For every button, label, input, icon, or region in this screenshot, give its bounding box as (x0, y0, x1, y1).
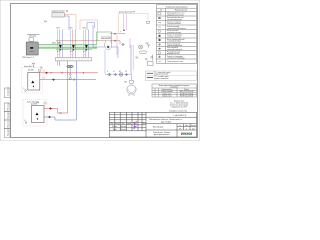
svg-text:Кабель на стороне: Кабель на стороне (167, 21, 181, 23)
svg-text:обратка отопления: обратка отопления (155, 78, 169, 80)
svg-text:Подп: Подп (133, 123, 137, 125)
svg-text:КН2: КН2 (70, 28, 73, 30)
svg-text:ГчБ.2020.ГФ: ГчБ.2020.ГФ (174, 114, 187, 117)
svg-text:Наименование: Наименование (175, 10, 187, 12)
svg-text:Насос системы: Насос системы (167, 30, 179, 32)
svg-text:датчик давления РВ: датчик давления РВ (119, 12, 136, 14)
svg-text:ПЛК Owen 1.2: ПЛК Owen 1.2 (22, 57, 34, 59)
svg-text:Подп.дата: Подп.дата (7, 112, 9, 119)
svg-text:Т1: Т1 (43, 71, 45, 73)
svg-text:Взам.инв: Взам.инв (7, 121, 9, 128)
svg-text:Разраб.: Разраб. (112, 126, 118, 128)
svg-text:Изм: Изм (110, 123, 113, 125)
svg-text:отопления контура: отопления контура (167, 32, 181, 34)
svg-text:ИНЖИ: ИНЖИ (181, 132, 192, 136)
svg-text:Кол.уч: Кол.уч (115, 123, 120, 125)
svg-text:Т2: Т2 (43, 77, 45, 79)
svg-text:вводной автомат: вводной автомат (52, 10, 65, 13)
svg-text:(15 кВт): (15 кВт) (31, 103, 37, 105)
svg-text:об.2: об.2 (70, 51, 73, 53)
svg-text:электронным приводом: электронным приводом (167, 58, 185, 60)
svg-text:ВВГнг 3х1,5 0,66 кВ: ВВГнг 3х1,5 0,66 кВ (180, 91, 194, 93)
svg-text:Кабель по которому: Кабель по которому (167, 35, 182, 37)
svg-text:Условные обозначения: Условные обозначения (166, 6, 188, 8)
svg-text:Котёл Baxi: Котёл Baxi (24, 66, 33, 68)
svg-text:КН3: КН3 (83, 28, 86, 30)
svg-text:КСПВГ 2х0,5 300 В: КСПВГ 2х0,5 300 В (180, 96, 193, 98)
svg-text:Марка: Марка (184, 89, 189, 91)
svg-text:Обозначения по баку: Обозначения по баку (167, 61, 183, 63)
svg-text:оборудованием автом.: оборудованием автом. (167, 14, 184, 16)
svg-text:свидетельство СРО: свидетельство СРО (171, 106, 187, 108)
svg-text:Клапан со следящим: Клапан со следящим (167, 56, 183, 58)
svg-text:Петров: Петров (121, 129, 126, 131)
svg-text:Лист: Лист (121, 123, 125, 125)
svg-text:К1: К1 (113, 71, 115, 73)
svg-text:КН1: КН1 (57, 28, 60, 30)
svg-text:об.3: об.3 (83, 51, 86, 53)
svg-text:подача отопления: подача отопления (155, 74, 169, 76)
svg-text:Листов: Листов (191, 125, 196, 127)
svg-text:Согласовано: Согласовано (7, 87, 9, 96)
svg-text:К2: К2 (125, 71, 127, 73)
svg-text:Подп.дата: Подп.дата (7, 129, 9, 136)
svg-text:Дата: Дата (142, 123, 146, 125)
svg-text:Н2: Н2 (119, 71, 121, 73)
svg-text:Наименование: Наименование (162, 89, 173, 91)
svg-text:дер. Райки: дер. Райки (161, 121, 171, 124)
svg-text:об.1: об.1 (57, 51, 60, 53)
svg-text:Кабель связи: Кабель связи (162, 96, 171, 98)
svg-text:Пров.: Пров. (113, 129, 118, 131)
svg-text:Жилой дом: Жилой дом (153, 126, 164, 129)
svg-text:насос контура: насос контура (101, 36, 111, 38)
svg-text:КСПВГ 4х0,5 300 В: КСПВГ 4х0,5 300 В (180, 93, 193, 95)
svg-text:сообщения: сообщения (170, 87, 178, 89)
svg-text:электроснабжение: электроснабжение (167, 36, 181, 38)
svg-text:Иванов: Иванов (120, 126, 126, 128)
svg-text:с мокрым ротором: с мокрым ротором (167, 41, 181, 43)
svg-text:№: № (160, 9, 162, 12)
svg-text:функциональная: функциональная (154, 133, 170, 136)
svg-text:ник электропитания: ник электропитания (167, 19, 182, 21)
svg-text:(24 кВт): (24 кВт) (28, 70, 34, 72)
svg-text:Т: Т (120, 32, 121, 34)
svg-text:Ст: Ст (179, 125, 181, 127)
svg-text:электроснабжения: электроснабжения (167, 23, 181, 25)
svg-text:Лист: Лист (185, 125, 189, 127)
svg-text:МБ: МБ (125, 82, 127, 84)
svg-text:Кабель сигн.: Кабель сигн. (163, 93, 172, 95)
svg-text:Кабель (провод): Кабель (провод) (167, 26, 180, 28)
